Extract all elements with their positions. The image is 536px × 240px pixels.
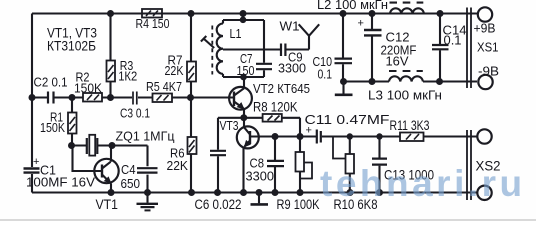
ground bottom center: [251, 193, 269, 205]
label VT1 VT3 type: [47, 26, 97, 54]
svg-text:+: +: [33, 156, 39, 168]
wire left rail lower segment: [31, 174, 33, 193]
node -9V C14: [436, 78, 443, 85]
resistor R6: [167, 98, 197, 193]
svg-text:+: +: [358, 18, 364, 30]
node rail R6: [188, 189, 195, 196]
wire -9V rail: [344, 80, 478, 82]
capacitor C14: [432, 14, 467, 82]
resistor R10 trimmer: [333, 137, 378, 213]
capacitor C3: [120, 92, 150, 121]
ground under C10: [335, 82, 353, 95]
svg-text:L1: L1: [230, 26, 242, 41]
svg-text:C2 0.1: C2 0.1: [34, 75, 68, 90]
node R2 R3 C3: [107, 94, 114, 101]
node rail C13: [376, 189, 383, 196]
svg-text:L2 100 мкГн: L2 100 мкГн: [317, 0, 388, 12]
node tank box bottom: [240, 74, 247, 81]
svg-text:tehnari.ru: tehnari.ru: [320, 163, 526, 204]
capacitor C11: [305, 112, 401, 144]
svg-text:VT3: VT3: [220, 118, 239, 133]
inductor L2: [317, 0, 424, 14]
node C2 R2 R1: [69, 94, 76, 101]
resistor R11: [390, 117, 478, 141]
resistor R2: [74, 70, 102, 102]
node -9V C12: [369, 78, 376, 85]
svg-text:L3 100 мкГн: L3 100 мкГн: [368, 88, 442, 103]
capacitor C4: [121, 146, 158, 193]
node rail VT1 emitter: [108, 189, 115, 196]
node ZQ1 VT1 C4: [109, 142, 116, 149]
svg-text:ZQ1 1МГц: ZQ1 1МГц: [116, 129, 176, 144]
node VT2 emitter: [240, 114, 247, 121]
svg-text:22K: 22K: [167, 158, 189, 173]
svg-text:W1: W1: [280, 19, 300, 34]
ground under C4: [137, 193, 159, 211]
svg-text:C3 0.1: C3 0.1: [120, 106, 150, 121]
node rail C8: [272, 189, 279, 196]
node C13 top: [376, 133, 382, 139]
node R5 R7 R6: [187, 94, 194, 101]
capacitor C12: [358, 14, 417, 82]
svg-text:R11 3K3: R11 3K3: [390, 117, 430, 133]
wire tank tap to C9: [223, 48, 281, 50]
node tank box top: [240, 17, 247, 24]
svg-text:0.1: 0.1: [444, 33, 462, 48]
connector XS2: [467, 129, 501, 200]
node top rail R3: [107, 10, 114, 17]
scan edge bottom: [0, 219, 536, 221]
node rail VT3 emitter: [240, 189, 247, 196]
svg-text:R5 4K7: R5 4K7: [146, 79, 182, 94]
svg-text:R4 150: R4 150: [136, 16, 170, 31]
svg-text:XS1: XS1: [477, 40, 499, 55]
svg-text:C11 0.47MF: C11 0.47MF: [305, 112, 390, 127]
resistor R3: [107, 14, 138, 98]
wire bottom ground rail: [32, 191, 477, 193]
resistor R5: [146, 79, 182, 102]
wire VT3 base row: [250, 135, 316, 137]
transistor VT1: [73, 146, 119, 213]
transistor VT3: [220, 118, 259, 193]
resistor R4: [136, 9, 170, 31]
node -9V C10: [340, 78, 347, 85]
tank circuit box L1/C7: [223, 14, 264, 79]
svg-text:R8 120K: R8 120K: [253, 99, 298, 115]
capacitor C2: [34, 75, 68, 104]
node top rail R7: [188, 10, 195, 17]
svg-text:VT2 КТ645: VT2 КТ645: [253, 81, 310, 96]
capacitor C8: [246, 137, 285, 193]
antenna W1: [280, 19, 320, 50]
svg-text:650: 650: [121, 176, 141, 191]
crystal ZQ1: [72, 129, 176, 156]
node rail R10: [347, 189, 354, 196]
svg-text:16V: 16V: [386, 54, 409, 69]
capacitor C9: [278, 44, 309, 76]
wire left rail upper segment: [31, 14, 33, 168]
node top rail C14: [437, 10, 444, 17]
capacitor C7: [237, 51, 273, 78]
svg-text:100MF 16V: 100MF 16V: [26, 175, 95, 190]
svg-text:R9 100K: R9 100K: [277, 196, 321, 212]
inductor L3: [368, 71, 442, 103]
L1 adjustment arrow: [201, 36, 214, 48]
capacitor C10: [313, 14, 353, 82]
resistor R7: [165, 14, 197, 98]
transistor VT2: [229, 78, 310, 118]
resistor R8: [244, 99, 300, 137]
svg-text:3300: 3300: [246, 169, 275, 184]
node left rail C2: [29, 94, 36, 101]
svg-text:C4: C4: [121, 162, 136, 177]
svg-text:-9В: -9В: [478, 64, 499, 79]
svg-text:150K: 150K: [40, 120, 65, 135]
node R10 top: [347, 133, 353, 139]
node ZQ1 R1: [68, 142, 75, 149]
svg-text:1К2: 1К2: [118, 69, 137, 84]
node top rail C10: [340, 10, 347, 17]
capacitor C13: [372, 137, 434, 193]
node rail R9: [297, 189, 304, 196]
node rail C4: [144, 189, 151, 196]
node top rail tank: [240, 10, 247, 17]
svg-text:0.1: 0.1: [318, 67, 333, 82]
svg-text:VT1: VT1: [96, 197, 119, 212]
capacitor C1: [24, 156, 96, 190]
inductor L1 winding: [217, 24, 223, 74]
svg-text:3300: 3300: [278, 61, 306, 76]
wire top supply rail: [32, 12, 477, 14]
svg-text:+9В: +9В: [474, 21, 496, 36]
wire VT2 emitter node to C6: [218, 117, 244, 119]
wire middle bias row: [32, 96, 234, 98]
capacitor C6: [195, 118, 242, 212]
node rail C6: [214, 189, 221, 196]
svg-text:КТ3102Б: КТ3102Б: [47, 39, 96, 54]
resistor R1: [40, 98, 77, 146]
connector XS1: [467, 7, 499, 89]
resistor R9 trimmer: [277, 137, 321, 213]
svg-text:22K: 22K: [165, 63, 184, 78]
node top rail C12: [369, 10, 376, 17]
node R8 R9: [297, 133, 304, 140]
svg-text:150K: 150K: [74, 81, 102, 96]
node VT3 base C8: [272, 133, 279, 140]
L1 adjustable core dashed line: [211, 26, 213, 75]
svg-text:C6 0.022: C6 0.022: [195, 197, 242, 212]
node rail ground: [256, 189, 263, 196]
